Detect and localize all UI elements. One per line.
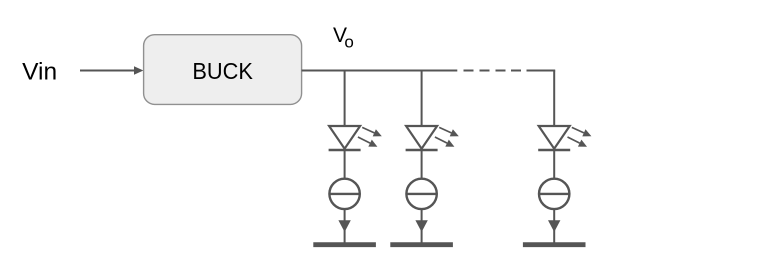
svg-text:Vin: Vin [22, 59, 57, 86]
svg-text:BUCK: BUCK [192, 58, 253, 84]
svg-text:o: o [344, 32, 353, 51]
